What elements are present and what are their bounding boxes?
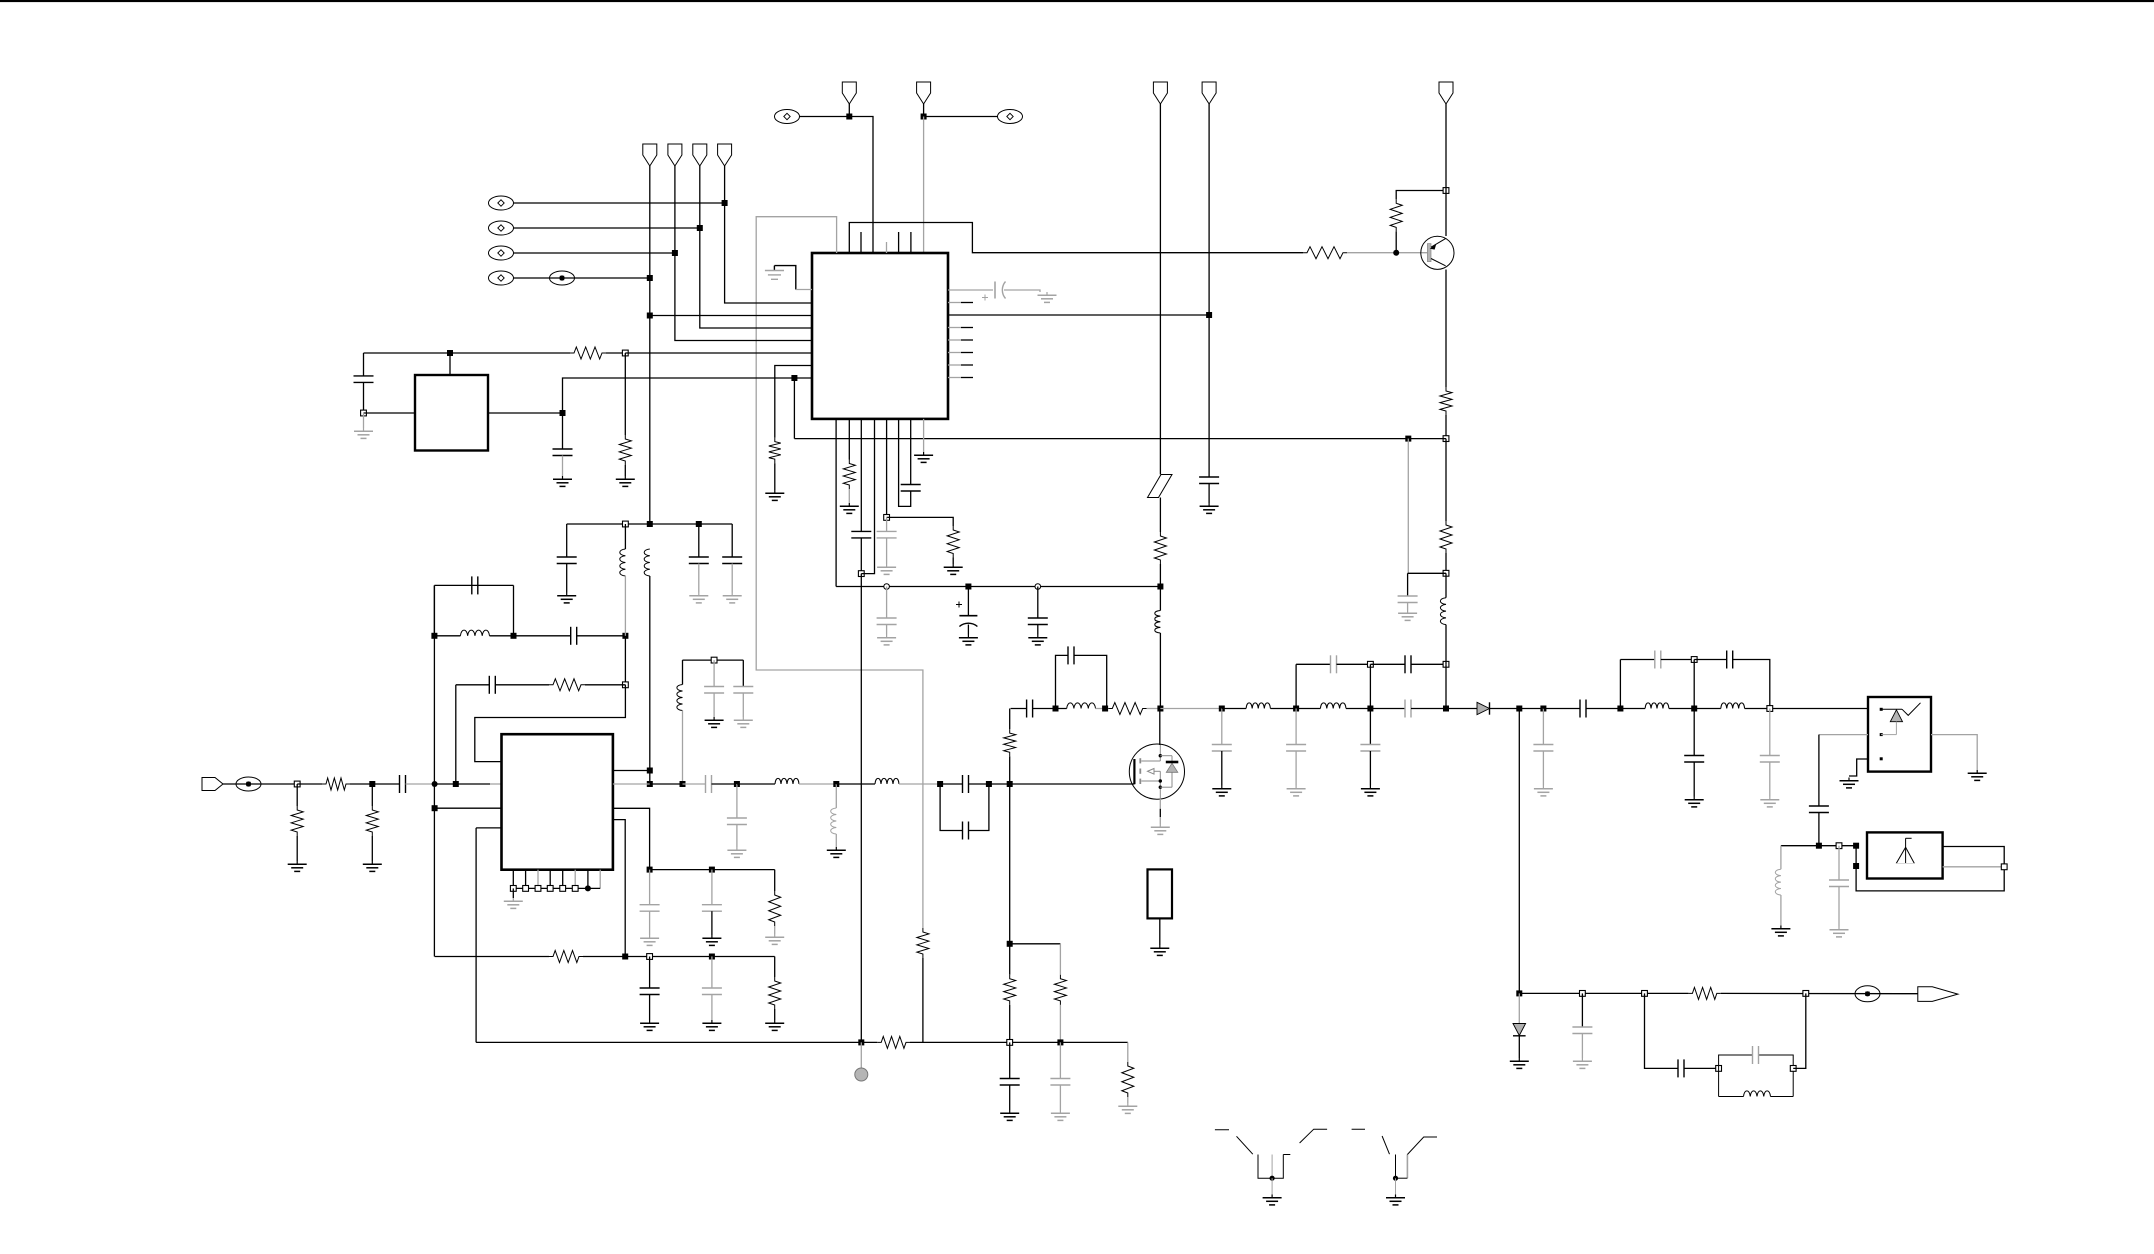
wire U1 pin B8 drop (gray) xyxy=(923,419,925,452)
wire U1 pin R stub 2 xyxy=(948,339,961,341)
wire rescol top xyxy=(1009,709,1011,730)
junction out-n8 xyxy=(1767,706,1773,712)
resistor R18 xyxy=(1004,729,1016,756)
oscillator X1 xyxy=(415,375,488,451)
resistor R17 (gray column) xyxy=(917,928,929,958)
wire node353 to U1 pin L5 xyxy=(625,352,812,354)
wire n1 cap drop (gray) xyxy=(1295,709,1297,745)
wire c39 to n7t xyxy=(1661,659,1694,661)
wire R13 gnd xyxy=(371,836,373,861)
capacitor C26 xyxy=(963,775,969,793)
wire via stub (gray) xyxy=(860,1042,862,1068)
wire C29 bridge xyxy=(1056,655,1069,708)
wire X1 out up to U1 pin L7 xyxy=(563,378,813,413)
wire main rf e (gray) xyxy=(799,783,836,785)
wire in-node1 drop xyxy=(296,784,298,806)
junction lc-right xyxy=(1790,1066,1796,1072)
stub Z1 xyxy=(1148,869,1173,918)
wire gate net c (gray) xyxy=(1096,708,1109,710)
ground GND-C6 (gray) xyxy=(877,564,896,574)
port P-IN xyxy=(202,778,223,791)
wire C3 to gnd (gray) xyxy=(1004,290,1040,292)
wire net524 C15 drop xyxy=(698,524,700,557)
capacitor C27 xyxy=(963,822,969,840)
wire C36 gnd (gray) xyxy=(1407,603,1409,611)
wire input e xyxy=(372,783,399,785)
wire C10 gnd xyxy=(1037,625,1039,635)
wire input f2 xyxy=(435,783,490,785)
wire n6 cap link xyxy=(1620,659,1654,661)
ground GND-C2 xyxy=(553,476,572,486)
junction drain node xyxy=(1157,706,1163,712)
wire C27 loop xyxy=(940,784,962,831)
wire node573 long drop xyxy=(860,574,862,1043)
test point TP5 xyxy=(775,110,800,124)
wire ae underloop xyxy=(1856,847,2004,891)
capacitor C40 xyxy=(1684,756,1704,763)
wire fb branch left xyxy=(456,684,490,686)
wire C9 gnd xyxy=(967,625,969,635)
capacitor C7 xyxy=(901,485,921,492)
ground GND-C48 xyxy=(1000,1110,1019,1120)
wire U1 pin B2 drop xyxy=(848,419,850,460)
wire out c xyxy=(1270,708,1320,710)
capacitor C23 (gray) xyxy=(702,905,722,912)
wire source seg2 xyxy=(1159,809,1161,817)
junction node636 xyxy=(622,633,628,639)
capacitor C32 (gray) xyxy=(1286,745,1306,752)
wire n1 cap link xyxy=(1296,663,1330,665)
ground GND-C49 (gray) xyxy=(1051,1110,1070,1120)
resistor R3 (emitter) xyxy=(1440,387,1452,415)
wire C6 gnd (gray) xyxy=(886,538,888,564)
junction port P6 node xyxy=(921,114,927,120)
wire U1 pin B1 to bus xyxy=(835,419,837,587)
wire bottom bus b xyxy=(910,1041,1128,1043)
wire D2 pin2 out (gray) xyxy=(1819,734,1868,736)
wire U2-L4 column xyxy=(475,828,477,1043)
capacitor C16 xyxy=(722,557,742,564)
wire C25 drop (gray) xyxy=(736,784,738,818)
capacitor C36 (gray) xyxy=(1398,596,1418,603)
junction in-node4 xyxy=(453,781,459,787)
junction out-n1 xyxy=(1293,706,1299,712)
capacitor C13 xyxy=(489,676,495,694)
capacitor C19 xyxy=(400,775,406,793)
wire C30 drop (gray) xyxy=(1221,709,1223,745)
capacitor C20 xyxy=(640,988,660,995)
resistor R2 (bias) xyxy=(1390,199,1402,231)
wire L3 to node636 (gray) xyxy=(624,576,626,636)
junction gate-L9 left xyxy=(1053,706,1059,712)
resistor R4 xyxy=(570,347,606,359)
wire port P5 stem xyxy=(848,104,850,117)
capacitor C34 xyxy=(1405,655,1411,673)
wire input d xyxy=(350,783,372,785)
port P8 (top right) xyxy=(1202,82,1216,104)
ground GND-E1 xyxy=(1263,1195,1282,1205)
wire X2 loop xyxy=(434,584,513,586)
wire P3 column to U1 pin L3 xyxy=(700,166,812,328)
junction TP4-P1 xyxy=(647,275,653,281)
resistor R19 xyxy=(1054,975,1066,1005)
wire U1 pin B5 drop xyxy=(886,419,888,518)
wire tank right drop xyxy=(742,660,744,686)
ground GND-L7 xyxy=(827,847,846,857)
wire ae pins tie xyxy=(1855,846,1857,866)
wire bus VCC xyxy=(836,586,1160,588)
wire n8 drop (gray) xyxy=(1769,709,1771,756)
wire node636 down xyxy=(624,636,626,685)
wire X1 top net xyxy=(364,352,571,354)
port P2 xyxy=(668,144,682,166)
resistor R11 xyxy=(291,806,303,836)
capacitor C30 (gray) xyxy=(1212,745,1232,752)
junction bbus-b xyxy=(1057,1039,1063,1045)
port P7 (top right) xyxy=(1153,82,1167,104)
ground GND-Q2 (gray) xyxy=(1151,824,1170,834)
junction row2-a xyxy=(622,954,628,960)
wire input f (gray) xyxy=(406,783,435,785)
wire fb branch mid xyxy=(495,684,549,686)
junction in-node1 xyxy=(294,781,300,787)
wire U1 pin L6 to R6 xyxy=(775,366,812,438)
wire D2 right lead (gray) xyxy=(1931,735,1977,770)
resistor R8 xyxy=(843,460,855,490)
wire net524 left drop xyxy=(566,524,568,557)
junction out-c30 xyxy=(1219,706,1225,712)
wire U1 pin R stub 0 xyxy=(948,302,961,304)
ground GND-C15 (gray) xyxy=(689,593,708,603)
wire X1 left cap drop xyxy=(363,353,365,376)
wire D2 pin3 gnd lead xyxy=(1849,759,1868,776)
wire P4 column to U1 pin L1 xyxy=(725,166,812,303)
junction X1 out node xyxy=(560,410,566,416)
junction n7t xyxy=(1691,657,1697,663)
wire P1 column long xyxy=(649,166,651,524)
ground GND-R6 xyxy=(765,490,784,500)
port P6 (top) xyxy=(917,82,931,104)
wire C49 gnd (gray) xyxy=(1059,1085,1061,1110)
capacitor C11 xyxy=(472,576,478,594)
wire C5 to node573 xyxy=(860,538,862,574)
junction node353 xyxy=(622,350,628,356)
wire U2 pin R1a xyxy=(613,770,650,772)
inductor L1 xyxy=(1155,611,1161,634)
junction ae-n2 xyxy=(1836,843,1842,849)
wire U1 pin T6 stub xyxy=(898,232,900,253)
capacitor C38 xyxy=(1580,700,1586,718)
wire P6 node to U1 pin-T8 (gray) xyxy=(923,117,925,254)
wire input ab xyxy=(223,783,297,785)
port P3 xyxy=(693,144,707,166)
wire det lc branch b xyxy=(1684,1067,1719,1069)
wire main rf i xyxy=(969,783,1010,785)
junction node573 xyxy=(858,571,864,577)
wire P1 column lower xyxy=(649,576,651,784)
junction main-L7 xyxy=(833,781,839,787)
junction U2R1a xyxy=(647,768,653,774)
antenna module AE1 xyxy=(1867,832,1943,878)
ground GND-C42 (gray) xyxy=(1760,797,1779,807)
resistor R16 xyxy=(769,891,781,926)
wire bbus cap2 drop (gray) xyxy=(1059,1042,1061,1078)
inductor L2 xyxy=(460,630,489,636)
wire X2 loop left xyxy=(433,585,435,635)
wire row2 a xyxy=(583,956,775,958)
wire TP2 to P3 column xyxy=(514,227,700,229)
capacitor C37 (gray) xyxy=(1533,745,1553,752)
ground GND-C17 xyxy=(705,717,724,727)
wire R4 to node353 xyxy=(606,352,625,354)
wire C23 gnd xyxy=(711,911,713,935)
inductor L13 xyxy=(1645,703,1669,709)
wire FB-cap column (gray) xyxy=(1407,439,1409,574)
resistor R25 xyxy=(1122,1062,1134,1097)
wire C43 tail xyxy=(1818,813,1820,846)
ferrite FB1 xyxy=(1148,475,1173,498)
junction tank mid xyxy=(711,657,717,663)
wire U2 gnd stub xyxy=(512,888,514,898)
wire node685 corner to U2 xyxy=(475,685,626,762)
wire U1 pin R stub 2b xyxy=(961,339,973,341)
wire U1 pin R stub 4b xyxy=(961,364,973,366)
port P9 (top right) xyxy=(1439,82,1453,104)
wire det line xyxy=(1519,992,1688,994)
wire gnd bracket to U1 xyxy=(774,266,795,290)
wire n6 up xyxy=(1619,660,1621,709)
test point TP4 xyxy=(489,271,514,285)
wire 1446 col c xyxy=(1445,573,1447,597)
wire C37 drop (gray) xyxy=(1542,709,1544,745)
wire port P6 stem xyxy=(923,104,925,117)
wire 573 branch drop xyxy=(1407,573,1409,596)
inductor L11 xyxy=(1320,703,1346,709)
wire X2 column bottom row xyxy=(435,956,549,958)
diode D1 xyxy=(1477,702,1490,714)
junction row1-a xyxy=(647,867,653,873)
wire net FB y439 xyxy=(794,438,1446,440)
resistor R21 xyxy=(1108,703,1146,715)
ground GND-C3 (gray) xyxy=(1038,292,1057,302)
test point TP-OUT xyxy=(1855,986,1880,1002)
wire L7 gnd (gray) xyxy=(835,834,837,847)
wire n2 up xyxy=(1369,664,1371,708)
wire node573 to pin B4 xyxy=(861,419,874,574)
port P4 xyxy=(718,144,732,166)
junction node685 xyxy=(623,682,629,688)
zener D3 xyxy=(1513,1024,1526,1036)
junction TP2-P3 xyxy=(697,225,703,231)
TVS module D2 xyxy=(1868,697,1931,772)
wire zener gnd xyxy=(1518,1036,1520,1058)
wire R1 to base node (gray) xyxy=(1347,252,1429,254)
wire LC row xyxy=(434,635,460,637)
resistor R9 xyxy=(947,526,959,558)
junction main-res-col xyxy=(1007,781,1013,787)
junction det-n4 xyxy=(1803,991,1809,997)
capacitor C22 (gray) xyxy=(640,905,660,912)
wire drain xyxy=(1159,709,1161,746)
ground GND-C25 (gray) xyxy=(727,847,746,857)
capacitor C3 (polarized, gray) xyxy=(982,282,1006,301)
ground GND-D2 xyxy=(1840,778,1859,788)
junction det-n2 xyxy=(1580,991,1586,997)
inductor L4 (on P1 column) xyxy=(644,549,650,576)
capacitor C24 xyxy=(706,775,712,793)
top border bar xyxy=(0,0,2154,2)
junction out-n6 xyxy=(1617,706,1623,712)
test point TP6 xyxy=(998,110,1023,124)
capacitor C39 (gray) xyxy=(1655,651,1661,669)
resistor R13 xyxy=(366,806,378,836)
wire R5 to gnd xyxy=(624,465,626,476)
resistor R12 xyxy=(322,778,350,790)
junction row2-c xyxy=(709,954,715,960)
ground GND-C44 (gray) xyxy=(1830,927,1849,937)
capacitor C25 (gray) xyxy=(727,818,747,825)
spark gap E2 xyxy=(1352,1129,1437,1194)
test point TP4b xyxy=(550,271,575,285)
wire main rf a xyxy=(650,783,683,785)
wire n7 drop xyxy=(1693,709,1695,756)
wire C40 gnd xyxy=(1693,762,1695,797)
wire net524 to L3 xyxy=(624,524,626,549)
ground GND-C36 (gray) xyxy=(1398,610,1417,620)
port P1 xyxy=(643,144,657,166)
resistor R22 xyxy=(1440,521,1452,553)
wire C15 gnd (gray) xyxy=(698,564,700,593)
junction main-tank xyxy=(680,781,686,787)
inductor L12 xyxy=(1440,598,1446,625)
wire U1 pin R stub 3b xyxy=(961,352,973,354)
wire U1 pin R stub 1 xyxy=(948,327,961,329)
wire gate net b xyxy=(1033,708,1067,710)
ground GND-C20 xyxy=(640,1020,659,1030)
wire tank left xyxy=(682,660,684,684)
ground GND-R13 xyxy=(363,861,382,871)
wire net524 right drop xyxy=(731,524,733,557)
resistor R14 xyxy=(549,951,583,963)
wire R7 to bus xyxy=(1159,564,1161,587)
junction main-c27 xyxy=(986,781,992,787)
junction ae-n1 xyxy=(1816,843,1822,849)
junction in-node2 xyxy=(369,781,375,787)
ground GND-R8 xyxy=(840,503,859,513)
wire main rf d xyxy=(737,783,775,785)
ground GND-C23 xyxy=(702,935,721,945)
wire R19 tail (gray) xyxy=(1059,1005,1061,1043)
resistor R5 xyxy=(619,435,631,465)
wire gate net a xyxy=(1011,708,1027,710)
wire U1 pin B6 drop xyxy=(899,419,911,507)
wire row2 right corner xyxy=(774,957,776,978)
wire C14 gnd xyxy=(566,564,568,593)
wire row1 xyxy=(650,869,775,871)
wire tank mid drop (gray) xyxy=(713,660,715,686)
wire node353 down xyxy=(624,353,626,435)
wire X1 out down xyxy=(562,413,564,449)
wire base node up xyxy=(1395,231,1397,252)
capacitor C1 xyxy=(354,376,374,383)
inductor L5 xyxy=(677,685,683,711)
ground GND-U2 (gray) xyxy=(504,898,523,908)
wire rescol up xyxy=(1009,756,1011,784)
wire R11 gnd xyxy=(296,836,298,861)
wire U1 pin R1 to Cpol (gray) xyxy=(948,289,993,291)
wire node413 gnd stub (gray) xyxy=(363,413,365,428)
inductor L14 xyxy=(1721,703,1745,709)
junction bus-C9 xyxy=(965,584,971,590)
wire c34 to n3t xyxy=(1411,663,1446,665)
junction collector node xyxy=(1443,188,1449,194)
junction X1 top pin xyxy=(447,350,453,356)
wire 1446 col d xyxy=(1445,625,1447,665)
capacitor C45 (gray) xyxy=(1572,1027,1592,1034)
wire D2 pin2 drop xyxy=(1818,735,1820,806)
capacitor C33 (gray) xyxy=(1360,745,1380,752)
junction out-n4 xyxy=(1516,706,1522,712)
wire bbus cap1 drop xyxy=(1009,1042,1011,1078)
junction bus-tp xyxy=(858,1039,864,1045)
junction n1446-573 xyxy=(1443,570,1449,576)
wire FB1 to R7 xyxy=(1159,498,1161,533)
wire R6 to gnd xyxy=(774,463,776,490)
wire main rf c xyxy=(712,783,737,785)
wire R8 gnd stub (gray) xyxy=(848,489,850,503)
wire ae row xyxy=(1781,845,1856,847)
test point TP-IN xyxy=(236,777,261,791)
junction in-node3 xyxy=(432,781,438,787)
capacitor C31 (gray) xyxy=(1331,655,1337,673)
wire n7 column xyxy=(1693,660,1695,709)
junction ae-n3 xyxy=(1853,843,1859,849)
wire U1 pin R stub 4 xyxy=(948,364,961,366)
wire n2 drop xyxy=(1369,709,1371,745)
wire 573 branch xyxy=(1408,572,1446,574)
wire TP4 to P1 column xyxy=(514,277,650,279)
resistor R10 xyxy=(549,679,585,691)
junction bus-C10 xyxy=(1035,584,1041,590)
wire C8 gnd (gray) xyxy=(886,625,888,635)
wire fb branch drop xyxy=(455,685,457,784)
junction gate-L9 right xyxy=(1102,706,1108,712)
junction row2-b xyxy=(647,954,653,960)
wire R25 gnd (gray) xyxy=(1127,1097,1129,1103)
wire det line b xyxy=(1721,992,1918,994)
resistor R24 xyxy=(877,1036,910,1048)
junction det-n1 xyxy=(1516,990,1522,996)
wire C33 gnd xyxy=(1369,751,1371,786)
U2 bottom pin rail xyxy=(510,870,600,892)
junction FB-cap node xyxy=(1405,436,1411,442)
capacitor C42 (gray) xyxy=(1760,756,1780,763)
wire R3 to node439 xyxy=(1445,415,1447,439)
inductor L8 xyxy=(875,778,899,784)
wire gray shield route xyxy=(756,217,923,928)
wire C4 to gnd xyxy=(1208,484,1210,504)
capacitor C29 xyxy=(1068,646,1074,664)
wire bus to L1 xyxy=(1159,587,1161,611)
wire C20 gnd xyxy=(649,995,651,1021)
junction TP3-P2 xyxy=(672,250,678,256)
wire node517 down (gray) xyxy=(886,517,888,531)
wire U1 pin B3 drop xyxy=(860,419,862,532)
wire row1 cap2 drop (gray) xyxy=(711,870,713,905)
capacitor C43 xyxy=(1809,806,1829,813)
wire out b xyxy=(1222,708,1246,710)
junction main-c26 xyxy=(937,781,943,787)
